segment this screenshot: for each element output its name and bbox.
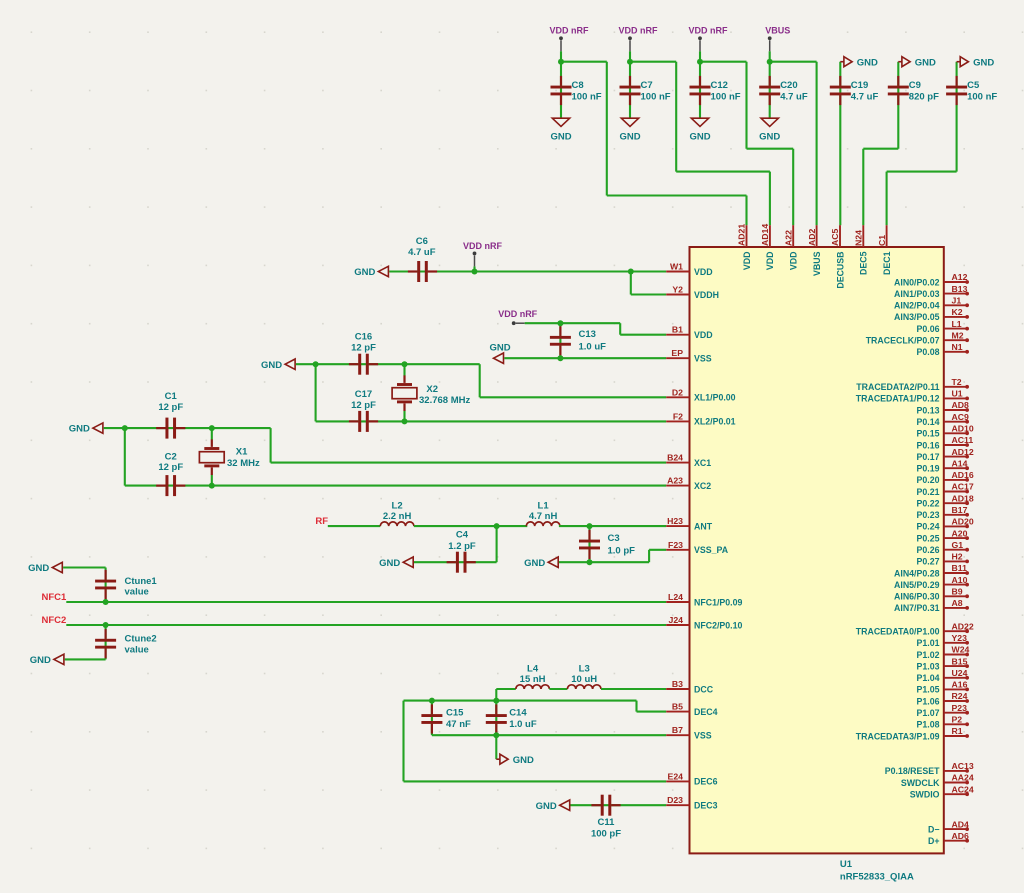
svg-text:D−: D−	[928, 824, 940, 834]
svg-text:AC17: AC17	[952, 482, 974, 492]
wire C4 row	[414, 561, 497, 563]
ground GND (C5)	[957, 57, 995, 69]
svg-text:SWDIO: SWDIO	[910, 790, 940, 800]
C14 value label	[509, 708, 537, 731]
wire VSS row to pin B7	[432, 734, 666, 736]
wire X2 top lead wire	[403, 364, 405, 376]
svg-text:AIN7/P0.31: AIN7/P0.31	[894, 603, 940, 613]
pin AC11 P0.16	[917, 435, 974, 450]
svg-text:F2: F2	[673, 411, 683, 421]
svg-text:NFC2: NFC2	[41, 615, 66, 626]
wire X2 bottom lead wire	[403, 411, 405, 422]
svg-text:ANT: ANT	[694, 521, 713, 531]
svg-text:4.7 uF: 4.7 uF	[408, 247, 436, 258]
svg-text:VSS_PA: VSS_PA	[694, 545, 729, 555]
ground GND (C4)	[379, 557, 413, 569]
junction C15 top	[429, 698, 435, 704]
svg-text:1.2 pF: 1.2 pF	[448, 541, 476, 552]
wire C15 vertical	[431, 701, 433, 736]
svg-text:GND: GND	[513, 755, 534, 766]
wire L2 to L1	[414, 525, 527, 527]
pin AD10 P0.15	[917, 424, 974, 439]
pin A16 P1.05	[917, 680, 969, 695]
svg-text:32.768 MHz: 32.768 MHz	[419, 395, 470, 406]
svg-text:P0.16: P0.16	[917, 440, 940, 450]
svg-text:DEC5: DEC5	[859, 251, 869, 275]
svg-text:GND: GND	[973, 57, 994, 68]
junction Ctune1 bottom	[103, 599, 109, 605]
power VDD nRF	[550, 26, 589, 62]
svg-text:100 nF: 100 nF	[572, 92, 602, 103]
C5 value label	[967, 80, 997, 103]
svg-text:C3: C3	[608, 533, 620, 544]
svg-text:value: value	[125, 587, 149, 598]
pin B13 AIN1/P0.03	[894, 284, 969, 299]
svg-text:E24: E24	[668, 771, 684, 781]
svg-text:P0.22: P0.22	[917, 499, 940, 509]
ground GND (C9)	[898, 57, 936, 69]
ground GND (Ctune1)	[28, 562, 62, 574]
svg-text:X2: X2	[426, 384, 438, 395]
svg-text:W1: W1	[670, 262, 683, 272]
svg-text:C20: C20	[780, 80, 797, 91]
svg-text:AD4: AD4	[952, 819, 970, 829]
pin B15 P1.03	[917, 656, 969, 671]
svg-text:AIN6/P0.30: AIN6/P0.30	[894, 592, 940, 602]
svg-text:AD22: AD22	[952, 621, 974, 631]
svg-text:XC2: XC2	[694, 481, 711, 491]
pin A10 AIN5/P0.29	[894, 575, 969, 590]
svg-text:P0.14: P0.14	[917, 417, 940, 427]
pin W24 P1.02	[917, 645, 970, 660]
svg-text:AD14: AD14	[760, 224, 770, 246]
junction C20 top	[767, 59, 773, 65]
wire C8 to pin AD21	[561, 62, 747, 226]
pin AD12 P0.17	[917, 447, 974, 462]
svg-text:DCC: DCC	[694, 684, 714, 694]
C2 value label	[158, 451, 183, 473]
svg-text:B3: B3	[672, 679, 683, 689]
svg-text:P0.18/RESET: P0.18/RESET	[885, 766, 940, 776]
svg-text:P0.24: P0.24	[917, 522, 940, 532]
C1 value label	[158, 391, 183, 413]
svg-text:P1.06: P1.06	[917, 696, 940, 706]
svg-text:GND: GND	[759, 132, 780, 143]
svg-text:TRACECLK/P0.07: TRACECLK/P0.07	[866, 336, 940, 346]
svg-text:AIN2/P0.04: AIN2/P0.04	[894, 301, 940, 311]
svg-text:C11: C11	[598, 817, 616, 828]
junction X1 top	[209, 425, 215, 431]
svg-text:L2: L2	[392, 501, 403, 512]
ground GND (C12)	[689, 118, 710, 142]
svg-text:XL2/P0.01: XL2/P0.01	[694, 417, 736, 427]
power VDD nRF	[689, 26, 728, 62]
svg-text:C1: C1	[165, 391, 178, 402]
wire NFC2 to pin J24	[66, 624, 666, 626]
svg-text:VDDH: VDDH	[694, 290, 719, 300]
svg-text:B17: B17	[952, 505, 968, 515]
inductor L1	[526, 522, 560, 526]
svg-text:12 pF: 12 pF	[351, 400, 376, 411]
svg-text:AIN4/P0.28: AIN4/P0.28	[894, 568, 940, 578]
X2 value label	[419, 384, 470, 406]
svg-text:J1: J1	[952, 296, 962, 306]
svg-text:AIN1/P0.03: AIN1/P0.03	[894, 289, 940, 299]
pin B1 VDD	[666, 325, 712, 340]
pin L24 NFC1/P0.09	[666, 592, 742, 607]
svg-text:D+: D+	[928, 836, 940, 846]
pin C1 DEC1	[877, 225, 892, 275]
IC U1 nRF52833_QIAA body	[690, 247, 944, 853]
svg-text:C8: C8	[572, 80, 584, 91]
power VBUS	[765, 26, 790, 62]
svg-text:VDD nRF: VDD nRF	[498, 309, 537, 319]
svg-text:B7: B7	[672, 725, 683, 735]
svg-text:AD6: AD6	[952, 831, 970, 841]
capacitor Ctune2	[95, 629, 116, 658]
capacitor C6	[408, 261, 437, 282]
pin AD4 D−	[928, 819, 969, 834]
pin U24 P1.04	[917, 668, 969, 683]
svg-text:P1.01: P1.01	[917, 638, 940, 648]
wire DEC6 row to pin E24	[404, 701, 667, 782]
svg-text:AIN5/P0.29: AIN5/P0.29	[894, 580, 940, 590]
svg-text:VSS: VSS	[694, 731, 712, 741]
wire C8 to ground	[560, 62, 562, 118]
svg-text:100 nF: 100 nF	[641, 92, 671, 103]
C16 value label	[351, 332, 376, 354]
node NFC2	[41, 615, 66, 626]
wire C12 to pin A22	[700, 62, 793, 226]
capacitor C4	[447, 552, 476, 573]
svg-text:P0.06: P0.06	[917, 324, 940, 334]
wire C16 row	[296, 363, 480, 365]
svg-text:A14: A14	[952, 458, 968, 468]
svg-text:P0.15: P0.15	[917, 429, 940, 439]
svg-text:100 nF: 100 nF	[967, 92, 997, 103]
wire C7 to pin AD14	[630, 62, 770, 226]
svg-text:L1: L1	[952, 319, 962, 329]
inductor L2	[380, 522, 414, 526]
C13 value label	[579, 329, 607, 353]
L2 value label	[383, 501, 412, 523]
pin AD16 P0.20	[917, 470, 974, 485]
svg-text:VSS: VSS	[694, 354, 712, 364]
wire Ctune1 vertical	[63, 568, 106, 603]
svg-text:Ctune2: Ctune2	[125, 634, 157, 645]
junction C3 bottom	[587, 559, 593, 565]
wire X1 bottom lead wire	[211, 475, 213, 486]
svg-text:C7: C7	[641, 80, 653, 91]
wire down to C4	[496, 526, 498, 562]
svg-text:X1: X1	[236, 446, 248, 457]
svg-text:DECUSB: DECUSB	[835, 252, 845, 289]
svg-text:GND: GND	[550, 132, 571, 143]
ground GND (C3)	[524, 557, 558, 569]
svg-text:AD20: AD20	[952, 517, 974, 527]
svg-text:AD10: AD10	[952, 424, 974, 434]
svg-text:GND: GND	[28, 563, 49, 574]
C7 value label	[641, 80, 671, 103]
svg-text:GND: GND	[490, 343, 511, 354]
capacitor C15	[421, 704, 442, 733]
svg-text:L1: L1	[538, 501, 550, 512]
svg-text:AC11: AC11	[952, 435, 974, 445]
svg-text:10 uH: 10 uH	[571, 674, 597, 685]
svg-text:12 pF: 12 pF	[158, 402, 183, 413]
pin L1 P0.06	[917, 319, 969, 334]
node RF	[315, 516, 328, 527]
svg-text:47 nF: 47 nF	[446, 719, 471, 730]
svg-text:AD12: AD12	[952, 447, 974, 457]
pin AC24 SWDIO	[910, 784, 974, 799]
junction C14 top	[493, 698, 499, 704]
wire C20 to pin AD2	[770, 62, 817, 226]
svg-text:C17: C17	[355, 389, 372, 400]
svg-text:U24: U24	[952, 668, 968, 678]
svg-text:TRACEDATA2/P0.11: TRACEDATA2/P0.11	[856, 382, 939, 392]
svg-text:W24: W24	[952, 645, 970, 655]
pin A22 VDD	[783, 225, 798, 270]
C6 value label	[408, 236, 436, 258]
svg-text:GND: GND	[619, 132, 640, 143]
svg-text:P0.17: P0.17	[917, 452, 940, 462]
svg-text:VDD: VDD	[742, 252, 752, 271]
pin P23 P1.07	[917, 703, 969, 718]
wire C7 to ground	[629, 62, 631, 118]
pin AC17 P0.21	[917, 482, 974, 497]
svg-text:GND: GND	[524, 558, 545, 569]
svg-text:VDD: VDD	[765, 252, 775, 271]
svg-text:B13: B13	[952, 284, 968, 294]
pin B3 DCC	[666, 679, 714, 694]
svg-text:VDD: VDD	[789, 252, 799, 271]
capacitor C19	[830, 76, 851, 105]
C3 value label	[608, 533, 636, 557]
C17 value label	[351, 389, 376, 411]
svg-text:GND: GND	[30, 655, 51, 666]
pin AD21 VDD	[737, 224, 752, 270]
ground GND (C13)	[490, 343, 511, 364]
capacitor C2	[156, 475, 185, 496]
svg-text:C1: C1	[877, 235, 887, 246]
pin Y23 P1.01	[917, 633, 969, 648]
svg-text:C13: C13	[579, 329, 596, 340]
svg-text:2.2 nH: 2.2 nH	[383, 511, 412, 522]
pin AD20 P0.24	[917, 517, 974, 532]
junction C14 bottom	[493, 732, 499, 738]
svg-text:EP: EP	[671, 348, 683, 358]
svg-text:4.7 uF: 4.7 uF	[780, 92, 808, 103]
junction C16 left	[313, 361, 319, 367]
ground GND (C7)	[619, 118, 640, 142]
pin F23 VSS_PA	[666, 540, 729, 555]
wire C14 vertical	[495, 701, 497, 736]
junction C4 node	[494, 523, 500, 529]
svg-text:NFC1: NFC1	[41, 592, 67, 603]
svg-text:N24: N24	[854, 230, 864, 246]
wire C3 vertical	[588, 526, 590, 562]
pin D23 DEC3	[666, 795, 717, 810]
pin U1 TRACEDATA1/P0.12	[856, 389, 969, 404]
svg-text:P2: P2	[952, 715, 963, 725]
svg-text:D2: D2	[672, 387, 683, 397]
svg-text:GND: GND	[689, 132, 710, 143]
svg-text:H23: H23	[667, 516, 683, 526]
svg-text:P0.21: P0.21	[917, 487, 940, 497]
svg-text:GND: GND	[857, 57, 878, 68]
capacitor C20	[759, 76, 780, 105]
pin R24 P1.06	[917, 691, 969, 706]
junction C1 left	[122, 425, 128, 431]
ground GND (C8)	[550, 118, 571, 142]
wire C20 to ground	[769, 62, 771, 118]
svg-text:AC9: AC9	[952, 412, 970, 422]
wire C17 row to pin F2 XL2	[316, 364, 667, 421]
ground GND (C11)	[536, 800, 570, 812]
C11 value label	[591, 817, 621, 840]
svg-text:K2: K2	[952, 307, 963, 317]
C15 value label	[446, 708, 471, 731]
svg-text:DEC6: DEC6	[694, 777, 718, 787]
pin T2 TRACEDATA2/P0.11	[856, 377, 969, 392]
pin B17 P0.23	[917, 505, 969, 520]
svg-text:4.7 nH: 4.7 nH	[529, 511, 558, 522]
pin B24 XC1	[666, 453, 711, 468]
svg-text:L24: L24	[668, 592, 683, 602]
pin AD6 D+	[928, 831, 969, 846]
svg-text:P23: P23	[952, 703, 968, 713]
C12 value label	[711, 80, 741, 103]
pin AD8 P0.13	[917, 400, 970, 415]
svg-text:AC5: AC5	[830, 228, 840, 246]
wire C9 to pin N24	[863, 62, 898, 226]
svg-text:VDD nRF: VDD nRF	[550, 26, 589, 36]
svg-text:C2: C2	[165, 451, 177, 462]
capacitor C8	[551, 76, 572, 105]
svg-text:VDD: VDD	[694, 267, 713, 277]
pin J24 NFC2/P0.10	[666, 615, 742, 630]
wire X1 top lead wire	[211, 428, 213, 440]
svg-text:P0.26: P0.26	[917, 545, 940, 555]
svg-text:NFC2/P0.10: NFC2/P0.10	[694, 620, 743, 630]
svg-text:P1.03: P1.03	[917, 661, 940, 671]
svg-text:U1: U1	[840, 859, 853, 870]
junction C13 top	[557, 320, 563, 326]
wire C19 to pin AC5	[839, 62, 841, 226]
pin B9 AIN6/P0.30	[894, 587, 969, 602]
C4 value label	[448, 530, 476, 552]
node NFC1	[41, 592, 67, 603]
svg-text:AD18: AD18	[952, 493, 974, 503]
svg-text:B24: B24	[667, 453, 683, 463]
wire GND-C6-VDDnRF to pin W1	[389, 270, 666, 272]
pin AC5 DECUSB	[830, 225, 845, 288]
svg-text:C9: C9	[909, 80, 921, 91]
junction X2 top	[402, 361, 408, 367]
power VDD nRF	[463, 241, 502, 272]
svg-text:P0.25: P0.25	[917, 533, 940, 543]
svg-text:32 MHz: 32 MHz	[227, 458, 260, 469]
pin J1 AIN2/P0.04	[894, 296, 969, 311]
pin AC13 P0.18/RESET	[885, 761, 974, 776]
pin B5 DEC4	[666, 702, 717, 717]
svg-text:P0.20: P0.20	[917, 475, 940, 485]
svg-text:M2: M2	[952, 330, 964, 340]
pin AD22 TRACEDATA0/P1.00	[856, 621, 974, 636]
wire L4 left down	[496, 689, 516, 701]
svg-text:4.7 uF: 4.7 uF	[851, 92, 879, 103]
pin A12 AIN0/P0.02	[894, 272, 969, 287]
svg-text:R24: R24	[952, 691, 968, 701]
wire VDD nRF to pin B1	[560, 323, 666, 335]
pin AD18 P0.22	[917, 493, 974, 508]
junction C6/VDD nRF	[472, 269, 478, 275]
pin A8 AIN7/P0.31	[894, 598, 969, 613]
svg-text:P1.08: P1.08	[917, 720, 940, 730]
svg-text:D23: D23	[667, 795, 683, 805]
svg-text:nRF52833_QIAA: nRF52833_QIAA	[840, 872, 914, 883]
pin Y2 VDDH	[666, 285, 719, 300]
svg-text:L4: L4	[527, 663, 539, 674]
svg-text:A20: A20	[952, 528, 968, 538]
svg-text:G1: G1	[952, 540, 964, 550]
wire L1 to pin H23 ANT	[559, 525, 666, 527]
svg-text:SWDCLK: SWDCLK	[901, 778, 940, 788]
pin A20 P0.25	[917, 528, 969, 543]
svg-text:1.0 pF: 1.0 pF	[608, 546, 636, 557]
pin B11 AIN4/P0.28	[894, 563, 969, 578]
junction C3 node	[587, 523, 593, 529]
ground GND (C6)	[354, 266, 388, 278]
svg-text:A10: A10	[952, 575, 968, 585]
junction W1/Y2 branch	[628, 269, 634, 275]
svg-text:VDD nRF: VDD nRF	[689, 26, 728, 36]
svg-text:DEC1: DEC1	[882, 251, 892, 275]
svg-text:GND: GND	[69, 424, 90, 435]
svg-text:P1.02: P1.02	[917, 650, 940, 660]
L3 value label	[571, 663, 597, 685]
pin K2 AIN3/P0.05	[894, 307, 969, 322]
capacitor C16	[349, 354, 378, 375]
junction Ctune2 top	[103, 622, 109, 628]
inductor L4	[516, 685, 550, 689]
svg-text:Y2: Y2	[672, 285, 683, 295]
svg-text:A16: A16	[952, 680, 968, 690]
svg-text:A22: A22	[783, 230, 793, 246]
svg-text:C15: C15	[446, 708, 464, 719]
svg-text:RF: RF	[315, 516, 328, 527]
svg-text:P1.05: P1.05	[917, 685, 940, 695]
capacitor C17	[349, 411, 378, 432]
svg-text:AD2: AD2	[807, 228, 817, 246]
svg-text:GND: GND	[354, 267, 375, 278]
svg-text:XL1/P0.00: XL1/P0.00	[694, 393, 736, 403]
svg-text:VDD: VDD	[694, 330, 713, 340]
pin N1 P0.08	[917, 342, 969, 357]
svg-text:AIN3/P0.05: AIN3/P0.05	[894, 312, 940, 322]
junction C7 top	[627, 59, 633, 65]
ground GND (C19)	[840, 57, 878, 69]
pin H23 ANT	[666, 516, 713, 531]
capacitor C9	[888, 76, 909, 105]
svg-text:C5: C5	[967, 80, 980, 91]
wire C5 to pin C1	[887, 62, 957, 226]
wire DEC4 row to pin B5	[404, 701, 667, 712]
svg-text:P0.27: P0.27	[917, 557, 940, 567]
ground GND (C20)	[759, 118, 780, 142]
wire L3 to pin B3 DCC	[601, 688, 666, 690]
